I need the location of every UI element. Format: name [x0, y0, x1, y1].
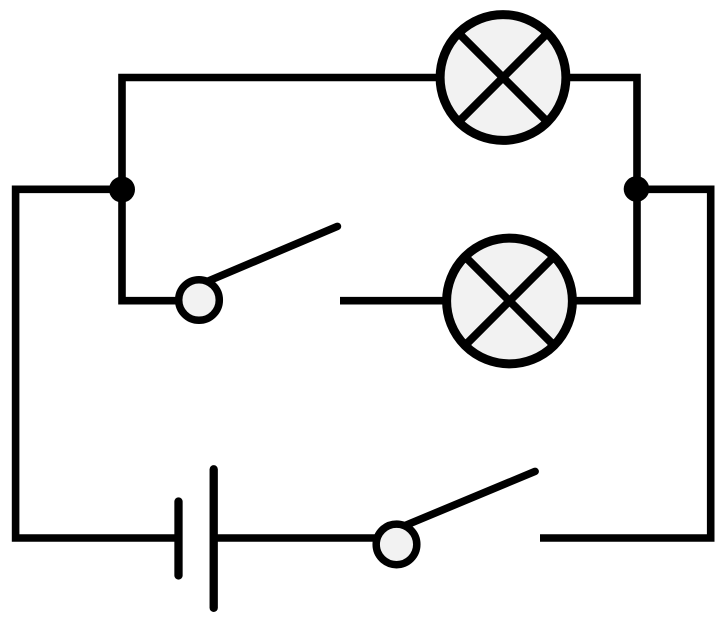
lamp L2 cross stroke 2 — [465, 257, 554, 346]
battery cell B1: long positive plate — [210, 469, 218, 608]
wire top loop left: middle row corner, inner-left vertical, top rail to lamp L1 — [122, 78, 440, 301]
wire right branch: junction row to right outer rail, down to bottom rail, to switch S2 gap — [540, 189, 711, 538]
wire left branch: junction row to left outer rail, down to bottom rail, to battery — [16, 189, 176, 538]
wire bottom middle: battery positive plate to switch S2 pivot — [214, 534, 378, 542]
lamp L2 cross stroke 1 — [465, 257, 554, 346]
switch S2 lever (open) — [404, 471, 535, 526]
wire top loop right: from lamp L1 right, corner down inner-right vertical to middle row — [566, 78, 637, 301]
junction node right — [624, 176, 650, 202]
lamp L1 cross stroke 1 — [459, 33, 548, 122]
junction node left — [109, 177, 135, 203]
lamp L2 circle — [447, 238, 573, 364]
switch S1 pivot circle — [179, 280, 220, 321]
lamp L1 cross stroke 2 — [459, 33, 548, 122]
wire middle row right: switch S1 fixed contact to lamp L2 — [340, 297, 450, 305]
switch S2 pivot circle — [376, 524, 417, 565]
battery cell B1: short negative plate — [174, 502, 182, 576]
switch S1 lever (open) — [206, 226, 337, 282]
lamp L1 circle — [440, 15, 566, 141]
